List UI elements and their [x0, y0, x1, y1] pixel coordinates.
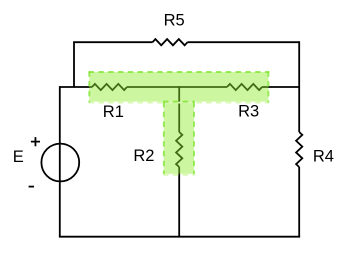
wire main row left [60, 86, 92, 88]
svg-text:R2: R2 [133, 147, 154, 165]
wire bottom row [59, 236, 300, 238]
highlight band fill (R1-R3 row) [89, 72, 268, 102]
svg-text:R4: R4 [313, 147, 334, 165]
wire middle branch upper [178, 86, 180, 132]
wire middle branch lower [178, 167, 180, 237]
wire left branch [59, 86, 61, 237]
resistor R5 [153, 39, 188, 45]
svg-text:E: E [13, 148, 24, 166]
resistor R3 [227, 84, 262, 90]
svg-text:R1: R1 [103, 103, 124, 121]
highlight column right dashed edge [193, 103, 195, 174]
wire top loop right [188, 41, 300, 43]
resistor R2 [176, 132, 182, 167]
voltage source E [41, 144, 79, 182]
svg-text:R3: R3 [238, 103, 259, 121]
polarity minus [29, 186, 34, 188]
highlight column fill (series branch R2) [164, 102, 194, 174]
wire right branch lower [298, 167, 300, 237]
wire top loop left [74, 42, 153, 87]
wire right branch upper [298, 41, 300, 132]
highlight band top dashed edge [89, 71, 268, 73]
polarity plus [31, 137, 40, 146]
svg-text:R5: R5 [164, 12, 185, 30]
highlight band bottom dashed edge [89, 102, 268, 104]
wire main row middle [127, 86, 227, 88]
highlight band left dashed edge [88, 72, 90, 102]
resistor R4 [296, 132, 302, 167]
highlight column bottom dashed edge [164, 174, 194, 176]
highlight band right dashed edge [267, 72, 269, 102]
resistor R1 [92, 84, 127, 90]
highlight column left dashed edge [163, 103, 165, 174]
wire main row right [262, 86, 299, 88]
highlight column top dashed edge [164, 101, 194, 103]
